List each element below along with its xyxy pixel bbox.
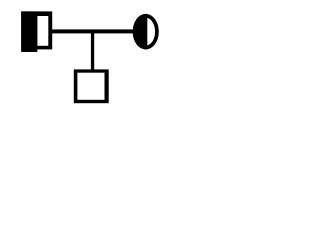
circle mother outline xyxy=(133,14,159,50)
square child outline xyxy=(74,69,109,103)
square father outline xyxy=(21,11,52,52)
mother left-half fill xyxy=(133,14,159,50)
wire marriage line xyxy=(50,29,137,33)
wire child drop line xyxy=(91,31,94,72)
father left-half fill xyxy=(21,11,37,52)
background xyxy=(0,0,170,111)
